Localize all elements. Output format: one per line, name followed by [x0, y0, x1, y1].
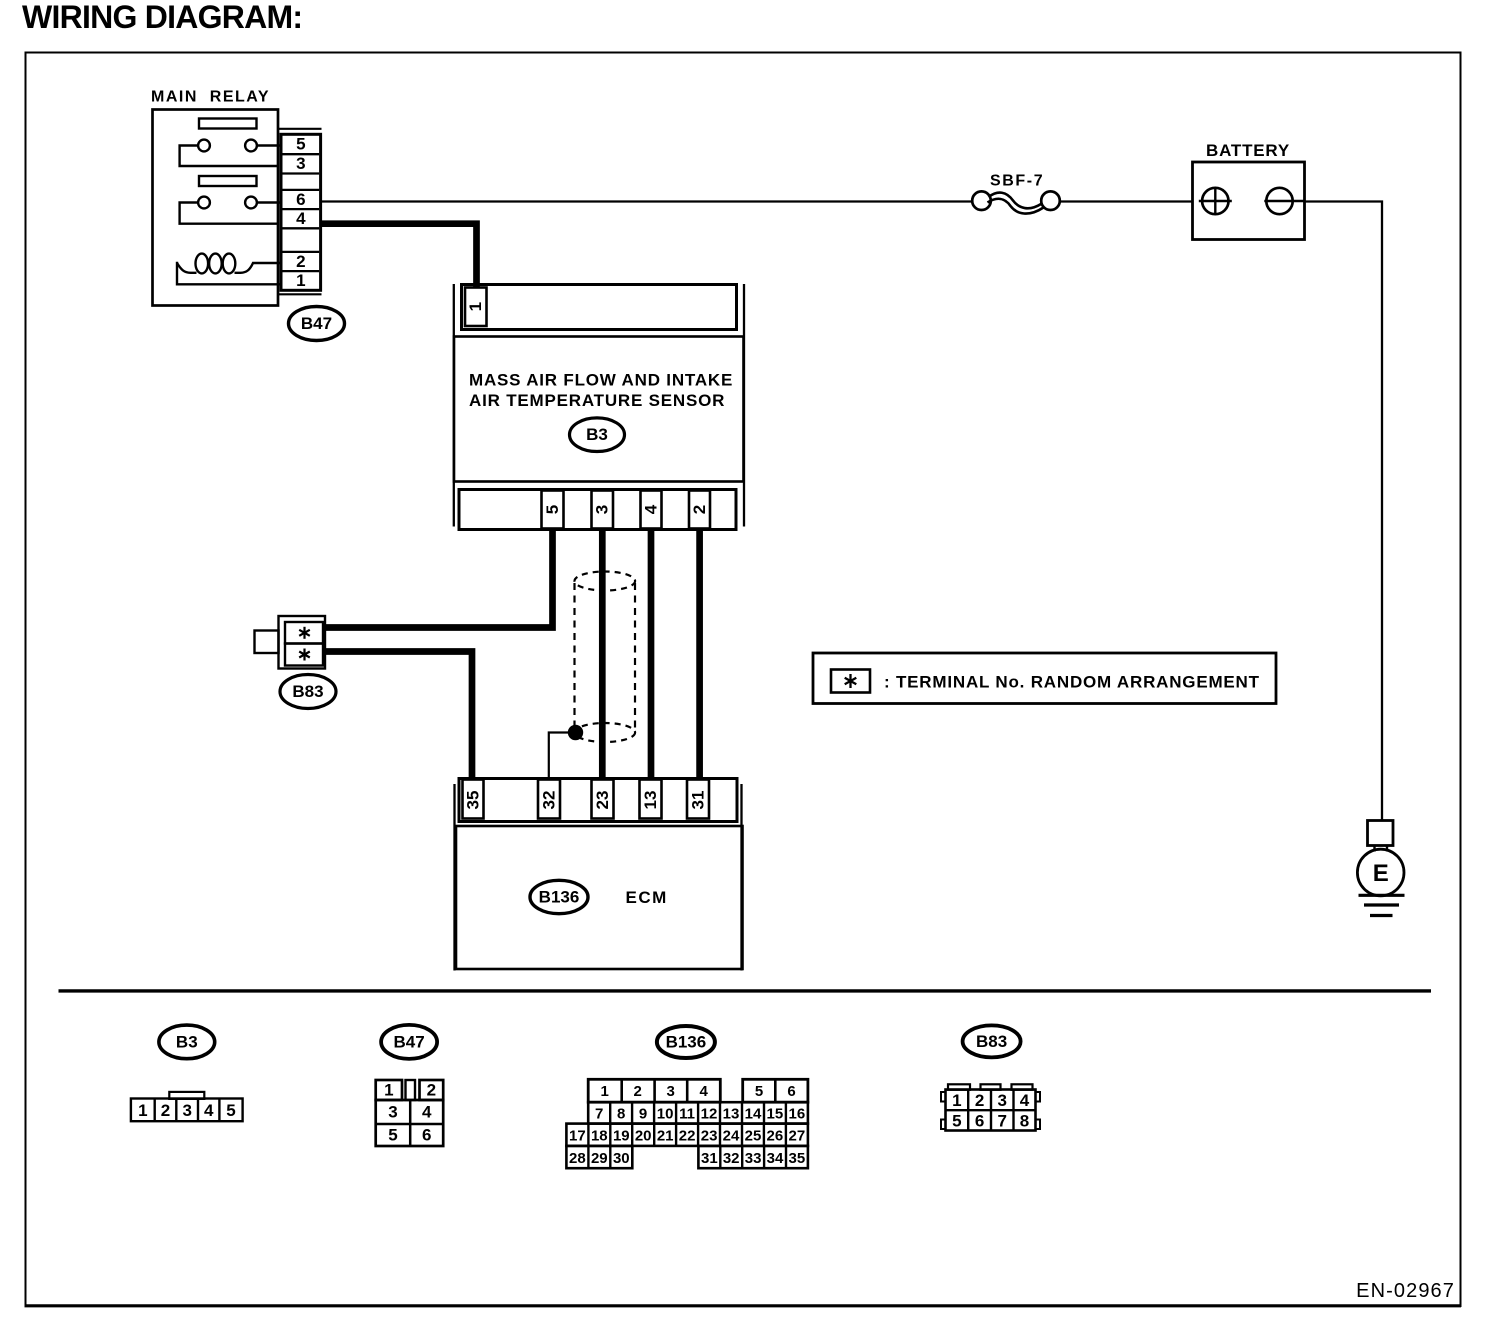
connector B47 cell divider: [283, 208, 320, 210]
svg-text:3: 3: [182, 1101, 191, 1120]
svg-text:3: 3: [388, 1103, 397, 1122]
svg-text:3: 3: [296, 154, 305, 173]
svg-text:6: 6: [975, 1112, 984, 1131]
wire sensor pin3 to ECM pin23: [599, 528, 606, 780]
pinout B47 cell 2: [420, 1080, 444, 1100]
svg-text:13: 13: [723, 1105, 740, 1122]
shield bottom ellipse: [575, 723, 636, 742]
pinout B136 row4 right: [698, 1146, 808, 1168]
connector B47 cell divider: [283, 153, 320, 155]
svg-text:2: 2: [975, 1091, 984, 1110]
svg-text:4: 4: [1020, 1091, 1030, 1110]
sensor pin 2 cell: [689, 491, 710, 529]
wire sensor pin2 to ECM pin31: [696, 528, 703, 780]
svg-text:32: 32: [539, 791, 558, 810]
legend asterisk box: [831, 670, 870, 693]
fuse SBF-7 right terminal: [1041, 191, 1060, 210]
svg-text:1: 1: [138, 1101, 147, 1120]
connector B47 cell divider: [283, 227, 320, 229]
connector B83 designator: [280, 675, 336, 709]
svg-text:SBF-7: SBF-7: [990, 173, 1044, 190]
svg-text:28: 28: [569, 1150, 586, 1167]
wire relay pin4 to sensor pin1: [321, 224, 477, 288]
svg-text:1: 1: [952, 1091, 961, 1110]
connector B47 bracket top: [278, 128, 322, 130]
shield side left: [573, 583, 575, 731]
shield top ellipse: [575, 572, 636, 591]
svg-text:21: 21: [657, 1127, 674, 1144]
connector B47 bracket bottom: [278, 293, 322, 295]
connector B47 shell: [281, 134, 321, 290]
fuse SBF-7 element: [989, 193, 1042, 209]
battery positive terminal: [1202, 188, 1228, 214]
ground connector square: [1368, 821, 1394, 846]
svg-text:12: 12: [701, 1105, 718, 1122]
pinout B47 cell 1: [376, 1080, 402, 1100]
separator line: [59, 989, 1432, 992]
relay switch 1 lead to pin 3: [180, 146, 279, 167]
terminal asterisk: [299, 627, 310, 639]
ECM pin 13 cell: [640, 780, 662, 819]
pinout B136 row2: [588, 1102, 808, 1123]
pinout B83 notch: [1036, 1092, 1041, 1102]
svg-text:17: 17: [569, 1127, 586, 1144]
wire battery to ground drop: [1305, 202, 1383, 821]
svg-text:29: 29: [591, 1150, 608, 1167]
svg-text:AIR TEMPERATURE SENSOR: AIR TEMPERATURE SENSOR: [469, 391, 725, 410]
legend asterisk: [845, 674, 857, 688]
svg-text:14: 14: [745, 1105, 762, 1122]
relay coil loop 2: [209, 254, 222, 274]
svg-text:5: 5: [388, 1126, 397, 1145]
relay switch 2 lead to pin 4: [180, 203, 279, 224]
svg-text:35: 35: [463, 791, 482, 810]
svg-text:34: 34: [767, 1150, 784, 1167]
sensor pin 5 cell: [542, 491, 564, 529]
sensor top connector shell: [462, 285, 737, 330]
svg-text:E: E: [1373, 860, 1389, 887]
svg-text:2: 2: [296, 252, 305, 271]
ECM pin 32 cell: [538, 780, 560, 819]
svg-text:4: 4: [700, 1083, 709, 1100]
pinout B3 shell: [131, 1099, 243, 1122]
shield junction dot: [568, 725, 583, 740]
relay switch 1 right contact: [245, 140, 257, 152]
pinout B83 tab: [1012, 1084, 1033, 1090]
ECM bracket left: [453, 784, 455, 971]
ECM bracket right: [740, 784, 742, 971]
legend box: [813, 653, 1276, 704]
svg-text:B47: B47: [301, 314, 332, 333]
pinout B83 notch: [1036, 1120, 1041, 1130]
pinout B3 designator: [159, 1025, 215, 1059]
pinout B47 grid: [376, 1100, 444, 1146]
relay coil lead to pin 1: [177, 262, 281, 285]
svg-text:32: 32: [723, 1150, 740, 1167]
connector B83 tab: [255, 631, 279, 654]
svg-text:4: 4: [204, 1101, 214, 1120]
svg-text:24: 24: [723, 1127, 740, 1144]
svg-text:6: 6: [422, 1126, 431, 1145]
ECM designator B136: [530, 880, 588, 913]
svg-text:18: 18: [591, 1127, 608, 1144]
svg-text:15: 15: [767, 1105, 784, 1122]
svg-text:22: 22: [679, 1127, 696, 1144]
svg-text:5: 5: [952, 1112, 961, 1131]
svg-text:26: 26: [767, 1127, 784, 1144]
relay contact bar 1: [199, 119, 257, 129]
pinout B83 notch: [941, 1120, 946, 1130]
ECM body: [456, 826, 743, 969]
svg-text:EN-02967: EN-02967: [1356, 1280, 1455, 1302]
relay contact bar 2: [199, 176, 257, 186]
shield side right: [634, 583, 636, 731]
svg-text:2: 2: [427, 1081, 436, 1100]
sensor pin 3 cell: [592, 491, 614, 529]
battery negative terminal: [1266, 188, 1292, 214]
svg-text:: TERMINAL No. RANDOM ARRANGEM: : TERMINAL No. RANDOM ARRANGEMENT: [884, 673, 1260, 692]
mass air flow sensor bracket right: [743, 284, 745, 527]
svg-text:9: 9: [639, 1105, 647, 1122]
svg-text:1: 1: [466, 302, 485, 311]
pinout B83 shell: [946, 1090, 1036, 1131]
svg-text:20: 20: [635, 1127, 652, 1144]
wire relay pin6 to fuse: [321, 200, 973, 202]
svg-text:13: 13: [641, 791, 660, 810]
sensor designator B3: [570, 418, 625, 452]
svg-text:7: 7: [997, 1112, 1006, 1131]
relay switch 2 right contact: [245, 197, 257, 209]
svg-text:WIRING DIAGRAM:: WIRING DIAGRAM:: [22, 0, 302, 35]
battery box: [1193, 162, 1305, 240]
connector B83 cell 1: [285, 622, 323, 644]
pinout B136 designator: [657, 1026, 715, 1058]
fuse SBF-7 left terminal: [972, 191, 991, 210]
sensor pin 1 cell: [465, 288, 487, 327]
svg-text:MASS AIR FLOW AND INTAKE: MASS AIR FLOW AND INTAKE: [469, 371, 733, 390]
sensor bottom connector shell: [459, 490, 736, 530]
svg-text:5: 5: [543, 505, 562, 514]
connector B83 shell: [279, 616, 326, 669]
svg-text:BATTERY: BATTERY: [1206, 141, 1290, 160]
svg-text:31: 31: [688, 791, 707, 810]
svg-text:MAIN RELAY: MAIN RELAY: [151, 89, 270, 106]
svg-text:19: 19: [613, 1127, 630, 1144]
relay switch 1 lead to pin 5: [257, 144, 281, 146]
svg-text:1: 1: [384, 1081, 393, 1100]
pinout B136 row4 left: [566, 1146, 632, 1168]
svg-text:6: 6: [296, 190, 305, 209]
shield drain wire to ECM pin32: [549, 733, 576, 781]
svg-text:2: 2: [690, 505, 709, 514]
svg-text:7: 7: [595, 1105, 603, 1122]
svg-text:3: 3: [593, 505, 612, 514]
svg-text:ECM: ECM: [626, 888, 668, 907]
svg-text:33: 33: [745, 1150, 762, 1167]
relay coil loop 3: [223, 254, 236, 274]
relay coil lead in: [177, 263, 197, 273]
svg-text:4: 4: [296, 209, 306, 228]
pinout B83 notch: [941, 1092, 946, 1102]
svg-text:B83: B83: [292, 682, 323, 701]
svg-text:30: 30: [613, 1150, 630, 1167]
ECM pin 35 cell: [463, 780, 484, 819]
wire sensor pin5 to B83: [323, 528, 553, 628]
svg-text:B136: B136: [666, 1033, 707, 1052]
connector B47 cell divider: [283, 189, 320, 191]
ground symbol: [1359, 895, 1405, 915]
svg-text:B3: B3: [176, 1032, 198, 1051]
relay switch 2 left contact: [198, 197, 210, 209]
ECM pin 31 cell: [687, 780, 709, 819]
svg-text:3: 3: [667, 1083, 675, 1100]
svg-text:B3: B3: [586, 425, 608, 444]
wire B83 to ECM pin35: [323, 652, 472, 780]
mass air flow sensor bracket left: [453, 284, 455, 527]
svg-text:3: 3: [997, 1091, 1006, 1110]
pinout B136 row1 right: [743, 1079, 808, 1102]
svg-text:5: 5: [226, 1101, 235, 1120]
svg-text:31: 31: [701, 1150, 718, 1167]
svg-text:6: 6: [787, 1083, 795, 1100]
svg-text:35: 35: [789, 1150, 806, 1167]
svg-text:11: 11: [679, 1105, 695, 1122]
svg-text:2: 2: [634, 1083, 642, 1100]
pinout B47 designator: [381, 1025, 437, 1059]
connector B47 cell divider: [283, 251, 320, 253]
svg-text:B47: B47: [394, 1032, 425, 1051]
svg-text:5: 5: [296, 135, 305, 154]
relay coil lead to pin 2: [235, 263, 282, 273]
relay coil loop 1: [196, 254, 209, 274]
svg-text:10: 10: [657, 1105, 674, 1122]
connector B47 cell divider: [283, 172, 320, 174]
connector B83 cell 2: [285, 644, 323, 666]
svg-text:1: 1: [296, 271, 305, 290]
terminal asterisk: [299, 649, 310, 661]
pinout B136 row3: [566, 1124, 808, 1146]
svg-text:2: 2: [161, 1101, 170, 1120]
pinout B47 key slot: [406, 1080, 416, 1100]
sensor pin 4 cell: [641, 491, 662, 529]
pinout B83 tab: [948, 1084, 970, 1090]
ECM connector shell: [459, 779, 737, 822]
wire sensor pin4 to ECM pin13: [648, 528, 655, 780]
svg-text:1: 1: [601, 1083, 609, 1100]
mass air flow sensor body: [454, 337, 744, 482]
svg-text:4: 4: [422, 1103, 432, 1122]
ECM pin 23 cell: [592, 780, 614, 819]
svg-text:23: 23: [593, 791, 612, 810]
svg-text:B83: B83: [976, 1032, 1007, 1051]
ground point E: [1357, 849, 1404, 896]
relay switch 1 left contact: [198, 140, 210, 152]
svg-text:16: 16: [789, 1105, 806, 1122]
svg-text:27: 27: [789, 1127, 806, 1144]
relay switch 2 lead to pin 6: [257, 201, 281, 203]
connector B47 cell divider: [283, 270, 320, 272]
svg-text:B136: B136: [539, 888, 580, 907]
pinout B83 tab: [981, 1084, 1001, 1090]
connector B47 designator: [289, 307, 345, 341]
svg-text:4: 4: [641, 504, 660, 514]
pinout B83 designator: [963, 1025, 1021, 1057]
pinout B3 tab: [169, 1092, 204, 1099]
svg-text:25: 25: [745, 1127, 762, 1144]
pinout B136 row1 left: [588, 1079, 720, 1102]
svg-text:5: 5: [755, 1083, 763, 1100]
svg-text:8: 8: [617, 1105, 625, 1122]
main relay box: [153, 110, 279, 306]
svg-text:8: 8: [1020, 1112, 1029, 1131]
wire fuse to battery: [1060, 200, 1193, 202]
svg-text:23: 23: [701, 1127, 718, 1144]
